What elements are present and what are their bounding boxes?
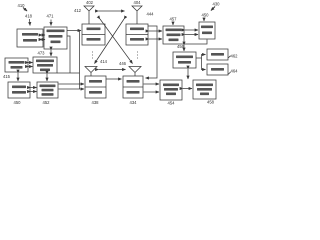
wire: arrows between BL1 and BL2 bbox=[31, 87, 37, 89]
arrow from 418 bbox=[29, 19, 32, 26]
label 434 bbox=[130, 100, 138, 105]
label 473 bbox=[38, 51, 46, 56]
antenna 404 (top right) bbox=[132, 6, 142, 24]
dots ellipsis below top-left transceiver bbox=[92, 52, 93, 59]
wire: vertical branch down from selector output bbox=[67, 36, 70, 73]
label 438 bbox=[92, 100, 100, 105]
wire: bus branch into bottom-left transceiver (upper) bbox=[59, 83, 85, 85]
svg-text:450: 450 bbox=[14, 100, 22, 105]
svg-text:438: 438 bbox=[92, 100, 100, 105]
wire: bus branch into bottom-left transceiver (lower) bbox=[59, 88, 85, 90]
svg-text:452: 452 bbox=[43, 100, 51, 105]
label 402 bbox=[86, 0, 94, 5]
label 410 bbox=[18, 3, 26, 8]
label 464 bbox=[231, 69, 239, 74]
box transmitter/receiver top-right bbox=[126, 24, 148, 45]
wire: box 471 to top-left transceiver bbox=[67, 30, 81, 32]
svg-text:412: 412 bbox=[74, 8, 82, 13]
svg-text:454: 454 bbox=[168, 101, 176, 106]
wire: codec to R1 and R2 bbox=[196, 55, 206, 59]
wire: signal processor down link bbox=[184, 40, 207, 45]
box R2 (speaker) bbox=[207, 64, 228, 75]
svg-text:450: 450 bbox=[202, 13, 210, 18]
arrow from 410 bbox=[23, 8, 27, 12]
svg-text:457: 457 bbox=[170, 17, 178, 22]
box 471 (2:1 antenna selector) bbox=[44, 27, 67, 49]
box R1 (display) bbox=[207, 49, 228, 60]
svg-text:404: 404 bbox=[134, 0, 142, 5]
arrow from 450 bbox=[203, 18, 205, 22]
tick to label 464 bbox=[228, 72, 230, 74]
label 450 bbox=[14, 100, 22, 105]
label 452 bbox=[43, 100, 51, 105]
wire: diagonal X arrow 2 bbox=[95, 19, 125, 64]
label 418 bbox=[25, 14, 33, 19]
label 454 bbox=[168, 101, 176, 106]
arrow from 457 bbox=[172, 22, 174, 26]
label 450 bbox=[202, 13, 210, 18]
wire: vertical double arrow box471 to IF box bbox=[50, 50, 52, 56]
label 414 bbox=[100, 59, 108, 64]
wire: double arrow BR1 to BR2 bbox=[183, 88, 192, 90]
box transceiver bottom-left bbox=[85, 76, 106, 98]
wire: arrows top-right transceiver to box 457 bbox=[149, 30, 162, 32]
box 456 (codec) bbox=[173, 52, 196, 68]
wire: L2 bottom-right horizontal to bus bbox=[57, 72, 80, 74]
box BL2 bbox=[37, 82, 58, 98]
wire: into BR1 upper bbox=[144, 83, 160, 85]
wire: vertical double arrow into codec box bbox=[183, 45, 185, 51]
label 458 bbox=[207, 100, 215, 105]
svg-text:471: 471 bbox=[47, 14, 55, 19]
svg-text:462: 462 bbox=[231, 54, 239, 59]
box BR2 (network converter) bbox=[193, 80, 216, 99]
svg-text:458: 458 bbox=[207, 100, 215, 105]
svg-text:414: 414 bbox=[100, 59, 108, 64]
label 462 bbox=[231, 54, 239, 59]
svg-text:446: 446 bbox=[119, 61, 127, 66]
svg-text:430: 430 bbox=[213, 2, 221, 7]
wire: bracket from top-right transceiver down to bottom-right transceiver bbox=[146, 26, 158, 78]
label 471 bbox=[47, 14, 55, 19]
antenna 446 (bottom right) bbox=[129, 67, 141, 77]
wire: vertical double arrow L1 to BL1 bbox=[17, 73, 19, 81]
label 415 bbox=[3, 74, 11, 79]
box 457 (multi-antenna selector) bbox=[163, 26, 184, 44]
arrow from 471 bbox=[50, 20, 52, 26]
tick to label 462 bbox=[228, 56, 230, 58]
wire: codec down to network box bbox=[187, 69, 189, 79]
wire: double arrow between bottom antennas bbox=[99, 69, 126, 71]
svg-text:434: 434 bbox=[130, 100, 138, 105]
wire: vertical double arrow L2 to BL2 bbox=[46, 74, 48, 81]
wire: diagonal X arrow 1 bbox=[100, 19, 133, 64]
label 446 bbox=[119, 61, 127, 66]
svg-text:464: 464 bbox=[231, 69, 239, 74]
box transmitter/receiver top-left bbox=[82, 24, 105, 45]
label 404 bbox=[134, 0, 142, 5]
svg-text:418: 418 bbox=[25, 14, 33, 19]
svg-text:402: 402 bbox=[86, 0, 94, 5]
wire: double arrow between top antennas bbox=[99, 10, 125, 12]
box BL1 bbox=[8, 82, 30, 98]
box 418 (GPS receiver) bbox=[17, 29, 43, 47]
label 430 bbox=[213, 2, 221, 7]
box L1 (baseband) bbox=[5, 58, 28, 72]
box transceiver bottom-right bbox=[123, 76, 143, 98]
label 444 bbox=[147, 12, 155, 17]
wire: arrow between bottom transceivers bbox=[106, 78, 122, 80]
dots ellipsis below top-right transceiver bbox=[137, 52, 138, 59]
svg-text:473: 473 bbox=[38, 51, 46, 56]
svg-text:444: 444 bbox=[147, 12, 155, 17]
antenna 414 (bottom left) bbox=[85, 67, 97, 77]
box BR1 (multi-antenna request processor) bbox=[160, 80, 182, 100]
label 412 bbox=[74, 8, 82, 13]
antenna 402 (top left) bbox=[84, 6, 94, 24]
wire: arrows between L1 and L2 bbox=[29, 62, 33, 64]
wire: vertical bus to bottom transceivers bbox=[79, 31, 81, 90]
wire: into BR1 lower bbox=[144, 91, 160, 93]
wire: arrows between box 418 and box 471 bbox=[42, 34, 45, 36]
svg-text:415: 415 bbox=[3, 74, 11, 79]
label 456 bbox=[177, 44, 185, 49]
box L2 (IF processor) bbox=[33, 57, 57, 73]
svg-text:456: 456 bbox=[177, 44, 185, 49]
box 450 (signal processor) bbox=[199, 22, 215, 39]
svg-text:410: 410 bbox=[18, 3, 26, 8]
arrow from 430 bbox=[211, 7, 215, 11]
label 457 bbox=[170, 17, 178, 22]
wire: arrows box 457 to box 450 bbox=[185, 29, 198, 31]
